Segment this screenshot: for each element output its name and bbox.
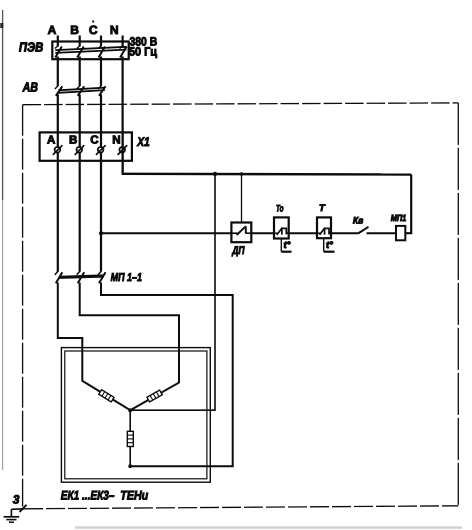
svg-text:A: A	[47, 134, 55, 146]
svg-text:t°: t°	[326, 240, 333, 251]
breaker AV (АВ) 3-pole	[22, 80, 106, 96]
wire phase C (PEV to AV)	[100, 57, 102, 87]
wire phase A (MP contacts to heater EK1)	[58, 283, 130, 411]
svg-text:Х1: Х1	[136, 135, 149, 149]
svg-text:t°: t°	[284, 240, 291, 251]
svg-text:C: C	[89, 23, 98, 37]
value label 380V 50Hz	[129, 34, 158, 58]
wire To to T	[289, 232, 317, 234]
terminal block X1	[40, 132, 150, 160]
svg-text:3: 3	[13, 493, 20, 507]
wire Kv to MP1 coil	[367, 232, 397, 234]
svg-text:АВ: АВ	[22, 80, 38, 95]
wire N bus horizontal	[122, 173, 412, 176]
wire DP to To	[251, 232, 274, 234]
junction N / star-point feeder	[213, 172, 217, 176]
node B	[70, 23, 79, 46]
svg-text:N: N	[110, 23, 119, 37]
label EK1..EK3 TENy	[61, 489, 149, 503]
junction N / DP feeder	[240, 172, 244, 176]
wire MP1 coil to N bus	[405, 175, 411, 234]
wire phase A (PEV to AV)	[57, 57, 59, 87]
heater frame (double border)	[61, 348, 210, 483]
switch Kv (Кв)	[353, 215, 369, 233]
svg-text:ДП: ДП	[231, 245, 245, 257]
heater EK1	[99, 390, 114, 402]
svg-text:ТЕНи: ТЕНи	[120, 489, 148, 503]
terminal X1-C	[96, 145, 106, 155]
svg-text:C: C	[90, 134, 98, 146]
wire phase B (PEV to AV)	[79, 57, 81, 87]
node A	[48, 23, 58, 46]
heater EK2	[147, 390, 162, 402]
svg-text:A: A	[48, 23, 57, 37]
thermal relay contact To (То)	[274, 204, 292, 252]
junction star point	[128, 408, 132, 412]
svg-text:B: B	[70, 23, 79, 37]
svg-text:То: То	[276, 204, 284, 215]
node N	[110, 23, 123, 46]
junction EK3 bottom	[128, 464, 132, 468]
thermal relay contact T (Т)	[317, 203, 335, 252]
wire star-point to N	[130, 174, 215, 410]
enclosure dashed boundary (grounded cabinet)	[23, 103, 459, 509]
svg-text:ПЭВ: ПЭВ	[19, 40, 43, 55]
wire phase A (X1 through, to MP contacts)	[57, 132, 59, 271]
terminal X1-A	[53, 145, 63, 155]
wire neutral N (PEV to X1)	[121, 57, 123, 174]
wire phase C (X1 through, to MP contacts)	[100, 132, 102, 271]
node C	[89, 20, 101, 46]
terminal X1-B	[75, 145, 85, 155]
wire DP feeder	[241, 174, 243, 223]
wire star point to EK3	[129, 410, 131, 466]
svg-text:50 Гц: 50 Гц	[129, 45, 158, 59]
coil MP1 (МП1)	[391, 213, 407, 240]
svg-text:МП 1–1: МП 1–1	[111, 272, 142, 284]
wire phase B (AV to X1)	[79, 95, 81, 133]
svg-text:Кв: Кв	[353, 215, 364, 226]
junction control tap on phase C	[99, 231, 103, 235]
wire control line C to DP	[101, 232, 231, 234]
wire phase C (AV to X1)	[100, 95, 102, 133]
contactor main contacts MP 1-1 (МП 1-1)	[55, 271, 142, 284]
ground	[4, 493, 27, 523]
terminal X1-N	[118, 145, 128, 155]
wire phase B (X1 through, to MP contacts)	[79, 132, 81, 271]
svg-text:ЕК1 ...ЕК3–: ЕК1 ...ЕК3–	[61, 489, 115, 503]
wire phase C (MP contacts to heater EK3)	[101, 283, 233, 467]
pressure sensor relay DP (ДП)	[231, 223, 251, 258]
wire phase A (AV to X1)	[57, 95, 59, 133]
svg-text:B: B	[69, 134, 77, 146]
wire phase B (MP contacts to heater EK2)	[80, 283, 179, 411]
wire neutral N below X1	[121, 132, 123, 173]
switch PEV (ПЭВ) 4-pole	[19, 40, 129, 60]
svg-text:МП1: МП1	[391, 213, 407, 223]
heater EK3	[127, 431, 133, 446]
svg-text:N: N	[112, 134, 120, 146]
wire T to Kv	[331, 232, 358, 234]
